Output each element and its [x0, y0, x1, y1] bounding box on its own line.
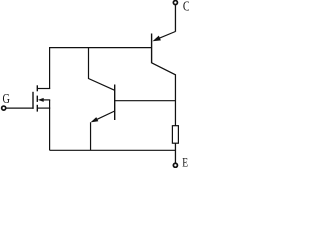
wire junction drop to Q2 collector: [89, 48, 115, 91]
terminal C (collector): [173, 1, 177, 5]
svg-text:E: E: [182, 154, 188, 168]
transistor Q1 PNP collector (diagonal down-right): [152, 63, 176, 126]
wire Q2 base to right vertical: [115, 100, 176, 102]
wire top rail / Q1 base to MOSFET drain node: [49, 47, 152, 49]
wire left drop from rail to MOSFET drain: [49, 48, 51, 89]
MOSFET M1 channel (dashed): [36, 85, 38, 111]
MOSFET M1 source stub: [37, 107, 50, 109]
svg-text:G: G: [3, 92, 10, 107]
wire G terminal to MOSFET gate: [6, 107, 33, 109]
wire resistor bottom to E terminal: [174, 143, 176, 163]
transistor Q2 NPN emitter (diagonal down-left with arrow): [91, 111, 115, 122]
wire C terminal down: [174, 5, 176, 32]
terminal E (emitter): [173, 163, 177, 167]
MOSFET M1 body stub with arrow: [38, 98, 50, 102]
terminal G (gate): [2, 106, 6, 110]
transistor Q2 NPN base bar: [114, 85, 116, 121]
wire bottom rail: [50, 149, 176, 151]
svg-text:C: C: [183, 0, 189, 13]
MOSFET M1 drain stub: [37, 88, 50, 90]
wire MOSFET source down to bottom rail: [49, 100, 51, 150]
wire Q2 emitter down to bottom rail: [90, 122, 92, 150]
transistor Q1 PNP emitter (diagonal from C with arrow into base bar): [153, 32, 176, 42]
MOSFET M1 gate bar: [32, 92, 34, 109]
resistor R1 (body region resistance): [172, 126, 178, 144]
transistor Q1 PNP base bar: [151, 34, 153, 64]
